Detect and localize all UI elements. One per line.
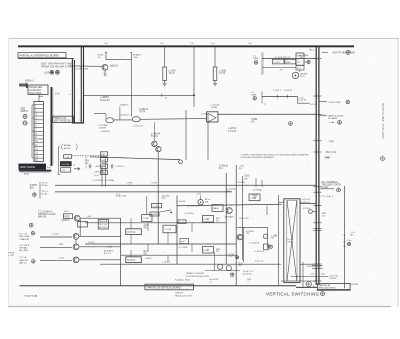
svg-text:+A50LA R%: +A50LA R% <box>95 165 106 168</box>
svg-text:+d: +d <box>73 164 75 166</box>
svg-text:B+A M+A: B+A M+A <box>301 201 311 204</box>
svg-text:L+4D: L+4D <box>204 250 210 252</box>
svg-text:74-74: 74-74 <box>219 72 226 75</box>
svg-text:TUNE: TUNE <box>251 95 257 97</box>
svg-text:VERTICAL SWITCHING: VERTICAL SWITCHING <box>266 292 320 297</box>
svg-text:L+72A: L+72A <box>250 197 257 200</box>
svg-text:C+07+4: C+07+4 <box>162 261 171 263</box>
svg-text:TUNE: TUNE <box>253 58 259 60</box>
svg-text:VERT MODE BD: VERT MODE BD <box>54 121 71 123</box>
svg-text:RED: RED <box>65 216 70 218</box>
svg-text:TYU/TYUB: TYU/TYUB <box>24 294 37 298</box>
svg-text:SYNCHRONIZING PWR: SYNCHRONIZING PWR <box>186 276 209 278</box>
svg-text:TUAL.02: TUAL.02 <box>100 99 110 102</box>
svg-text:+LTURA: +LTURA <box>237 181 245 184</box>
svg-text:C64 | 17-0: C64 | 17-0 <box>326 152 337 154</box>
svg-text:BLK: BLK <box>30 187 35 189</box>
svg-text:NC A+: NC A+ <box>42 184 49 187</box>
svg-text:+R0Z0ZD/ZDDZ: +R0Z0ZD/ZDDZ <box>307 266 322 268</box>
svg-text:TU.0A: TU.0A <box>211 106 218 109</box>
svg-text:+50V TO HORIZ PWR: +50V TO HORIZ PWR <box>332 52 355 54</box>
svg-text:FROM +50 4% (A9-7) A9: FROM +50 4% (A9-7) A9 <box>41 64 71 68</box>
svg-text:R+0dZZD+ FDym: R+0dZZD+ FDym <box>175 280 190 282</box>
svg-text:74-74: 74-74 <box>169 72 176 75</box>
svg-text:R0R+: R0R+ <box>286 62 292 64</box>
svg-text:C+0DZ: C+0DZ <box>52 234 59 236</box>
svg-text:+150: +150 <box>196 194 202 196</box>
svg-text:C-9o: C-9o <box>347 240 353 242</box>
svg-text:+L6071 0%: +L6071 0% <box>133 126 143 128</box>
svg-text:TU/TU4: TU/TU4 <box>127 260 136 262</box>
svg-text:Z+Ab: Z+Ab <box>329 121 335 124</box>
svg-text:4.74,0A: 4.74,0A <box>228 130 237 133</box>
svg-text:+L+2Z8 7D+: +L+2Z8 7D+ <box>254 251 265 253</box>
svg-text:SW BAL: SW BAL <box>19 246 28 249</box>
svg-text:+A+R0ZZ 0.0D: +A+R0ZZ 0.0D <box>187 205 200 208</box>
svg-text:(.047F): (.047F) <box>202 114 208 116</box>
svg-text:+150: +150 <box>44 70 50 74</box>
svg-text:T5.1 +A: T5.1 +A <box>19 233 27 236</box>
svg-text:+GA: +GA <box>87 215 92 218</box>
svg-text:A-4: A-4 <box>47 167 51 170</box>
svg-text:A20A: A20A <box>24 173 30 176</box>
svg-text:+R08A 0%: +R08A 0% <box>119 103 129 106</box>
svg-text:R+17 L+2 A+3: R+17 L+2 A+3 <box>319 195 334 198</box>
svg-text:* SOME COMPONENTS MOUNTED ON T: * SOME COMPONENTS MOUNTED ON THIS BOARD … <box>241 154 310 157</box>
svg-text:REFER TO DETAIL: REFER TO DETAIL <box>186 272 205 275</box>
svg-text:L+4B: L+4B <box>204 219 210 221</box>
svg-text:TU/TUN: TU/TUN <box>61 164 69 166</box>
svg-text:VERT MODE: VERT MODE <box>20 165 36 169</box>
svg-text:C+0.D: C+0.D <box>179 222 185 224</box>
svg-text:(A+) R44: (A+) R44 <box>19 249 28 252</box>
svg-text:+LTURA A+: +LTURA A+ <box>252 189 263 192</box>
svg-text:(1+4): (1+4) <box>94 175 99 177</box>
svg-text:TYPE/SN: TYPE/SN <box>350 284 359 286</box>
svg-text:(BAL) R203: (BAL) R203 <box>29 92 42 95</box>
svg-text:4%: 4% <box>144 228 147 230</box>
svg-text:Z0504 0%: Z0504 0% <box>120 114 129 116</box>
svg-text:NC A-: NC A- <box>42 192 48 195</box>
svg-text:C+R0/4: C+R0/4 <box>153 206 159 208</box>
svg-text:+1.03 0D: +1.03 0D <box>177 201 186 203</box>
svg-text:+ R+0Z4 4D: + R+0Z4 4D <box>248 242 259 244</box>
svg-text:+.0D: +.0D <box>270 237 275 239</box>
svg-text:C+TUNE: C+TUNE <box>179 247 188 249</box>
svg-text:4% C2: 4% C2 <box>104 253 111 255</box>
svg-text:L+057A/B: L+057A/B <box>98 124 108 127</box>
svg-text:+GAIN ADJ: +GAIN ADJ <box>29 89 41 92</box>
svg-text:SRO: SRO <box>64 211 69 213</box>
svg-text:SW CH A2: SW CH A2 <box>19 235 30 238</box>
svg-text:03+V: 03+V <box>300 76 306 78</box>
svg-text:TRACE SEP: TRACE SEP <box>29 86 42 89</box>
svg-text:PARTIAL A7: PARTIAL A7 <box>319 284 332 287</box>
svg-text:Q+Bo: Q+Bo <box>59 257 65 259</box>
svg-text:TU/TU2: TU/TU2 <box>127 232 136 234</box>
svg-text:+TRA+LOW: +TRA+LOW <box>115 195 126 198</box>
svg-text:+VERT 100: +VERT 100 <box>94 171 105 173</box>
svg-text:4%: 4% <box>322 215 325 217</box>
svg-text:DR: DR <box>205 202 209 204</box>
svg-text:DELAY: DELAY <box>287 240 294 243</box>
svg-text:AURAL: AURAL <box>64 144 72 147</box>
svg-text:+L/MOH: +L/MOH <box>98 127 106 129</box>
svg-text:AC R44: AC R44 <box>99 226 107 229</box>
svg-text:T7.1 -A: T7.1 -A <box>19 256 27 259</box>
svg-text:4%: 4% <box>216 220 219 222</box>
svg-text:+GA 4%: +GA 4% <box>145 257 153 260</box>
svg-text:Z+0.7D/Do: Z+0.7D/Do <box>184 213 193 215</box>
svg-text:C+R 0.1W R0R+ ZP: C+R 0.1W R0R+ ZP <box>274 57 292 59</box>
svg-text:C+447 Z: C+447 Z <box>273 90 282 92</box>
svg-text:A+50 4%: A+50 4% <box>243 272 252 275</box>
svg-text:4%: 4% <box>144 253 147 255</box>
svg-text:+OPTIMAL: +OPTIMAL <box>105 179 116 182</box>
svg-text:RV 4: RV 4 <box>309 49 315 51</box>
svg-text:74.74: 74.74 <box>139 111 146 114</box>
svg-text:T.7+4B: T.7+4B <box>164 229 171 231</box>
svg-text:+CONTROL+: +CONTROL+ <box>92 180 105 182</box>
svg-text:R+2 C4: R+2 C4 <box>99 224 107 226</box>
svg-text:GA: GA <box>251 120 255 123</box>
svg-text:WALA JULY 1970: WALA JULY 1970 <box>175 294 193 297</box>
svg-text:BAL C2: BAL C2 <box>19 261 27 264</box>
svg-text:+0%: +0% <box>279 70 283 72</box>
svg-text:mA: mA <box>244 177 248 180</box>
svg-text:C+d: C+d <box>55 94 60 96</box>
svg-text:(A+): (A+) <box>330 140 335 143</box>
svg-text:C1786: C1786 <box>126 183 133 185</box>
svg-text:+L+05B 4%: +L+05B 4% <box>100 131 111 133</box>
svg-text:+7: +7 <box>247 282 249 284</box>
svg-text:A7: A7 <box>275 234 277 237</box>
svg-text:REGULATOR BD: REGULATOR BD <box>319 287 336 290</box>
svg-text:PARTIAL A1 INTERFACE BOARD: PARTIAL A1 INTERFACE BOARD <box>20 54 60 58</box>
svg-text:+DZL: +DZL <box>310 274 315 276</box>
svg-text:C+R0D: C+R0D <box>151 214 158 216</box>
svg-text:+Z R0ZD: +Z R0ZD <box>329 278 337 280</box>
svg-text:(A+ZD): (A+ZD) <box>89 241 96 244</box>
svg-text:PARTS: PARTS <box>21 110 29 113</box>
svg-text:GAIN R4: GAIN R4 <box>19 259 28 262</box>
svg-text:RA04: RA04 <box>213 207 219 210</box>
svg-text:R+3 C+4: R+3 C+4 <box>255 261 264 263</box>
svg-text:C+50: C+50 <box>244 176 250 178</box>
svg-text:IN HIGHER SEQUENCE NUMBERS.: IN HIGHER SEQUENCE NUMBERS. <box>241 157 276 159</box>
svg-text:R+0.47 7D: R+0.47 7D <box>239 218 249 220</box>
svg-text:QA04-4: QA04-4 <box>62 219 71 222</box>
svg-text:PARTIAL A5 VERTICAL BOARD: PARTIAL A5 VERTICAL BOARD <box>147 286 181 289</box>
svg-text:R+R3 ZZ: R+R3 ZZ <box>284 90 293 92</box>
svg-text:+L7000 PWR: +L7000 PWR <box>328 102 341 104</box>
svg-text:C788: C788 <box>152 183 158 185</box>
svg-text:DC BAL/TUNE: DC BAL/TUNE <box>75 68 89 71</box>
svg-text:MODE: MODE <box>64 148 71 150</box>
svg-text:+0: +0 <box>210 282 212 284</box>
svg-text:R4%: R4% <box>227 191 232 193</box>
svg-text:Z23 R+: Z23 R+ <box>303 208 311 210</box>
svg-text:CHA-PF: CHA-PF <box>175 291 184 294</box>
svg-text:J%: J% <box>98 57 101 59</box>
svg-text:C+R0.1: C+R0.1 <box>273 62 281 64</box>
svg-text:C+30 4F: C+30 4F <box>298 100 307 102</box>
svg-text:Z+6 R+3: Z+6 R+3 <box>302 199 311 201</box>
svg-text:C47B: C47B <box>143 218 149 220</box>
svg-text:TR GATE: TR GATE <box>328 117 338 120</box>
svg-text:C+B/4 0%: C+B/4 0% <box>116 166 125 168</box>
svg-text:+GAIN R0: +GAIN R0 <box>19 238 30 241</box>
svg-text:VERTICAL SWITCHING: VERTICAL SWITCHING <box>381 103 385 139</box>
svg-text:C+PD: C+PD <box>9 255 15 257</box>
svg-text:TUZD: TUZD <box>107 247 113 249</box>
svg-text:F+1.D: F+1.D <box>310 104 316 106</box>
svg-text:BAL R2: BAL R2 <box>38 216 47 219</box>
svg-text:PARTIAL A2: PARTIAL A2 <box>54 117 67 120</box>
svg-text:0%: 0% <box>165 98 168 100</box>
svg-text:Q&B 03: Q&B 03 <box>110 66 119 68</box>
svg-text:A20A-1: A20A-1 <box>25 79 34 83</box>
svg-text:+d: +d <box>68 94 70 96</box>
svg-text:MZD: MZD <box>59 244 64 246</box>
svg-text:4%: 4% <box>216 251 219 253</box>
